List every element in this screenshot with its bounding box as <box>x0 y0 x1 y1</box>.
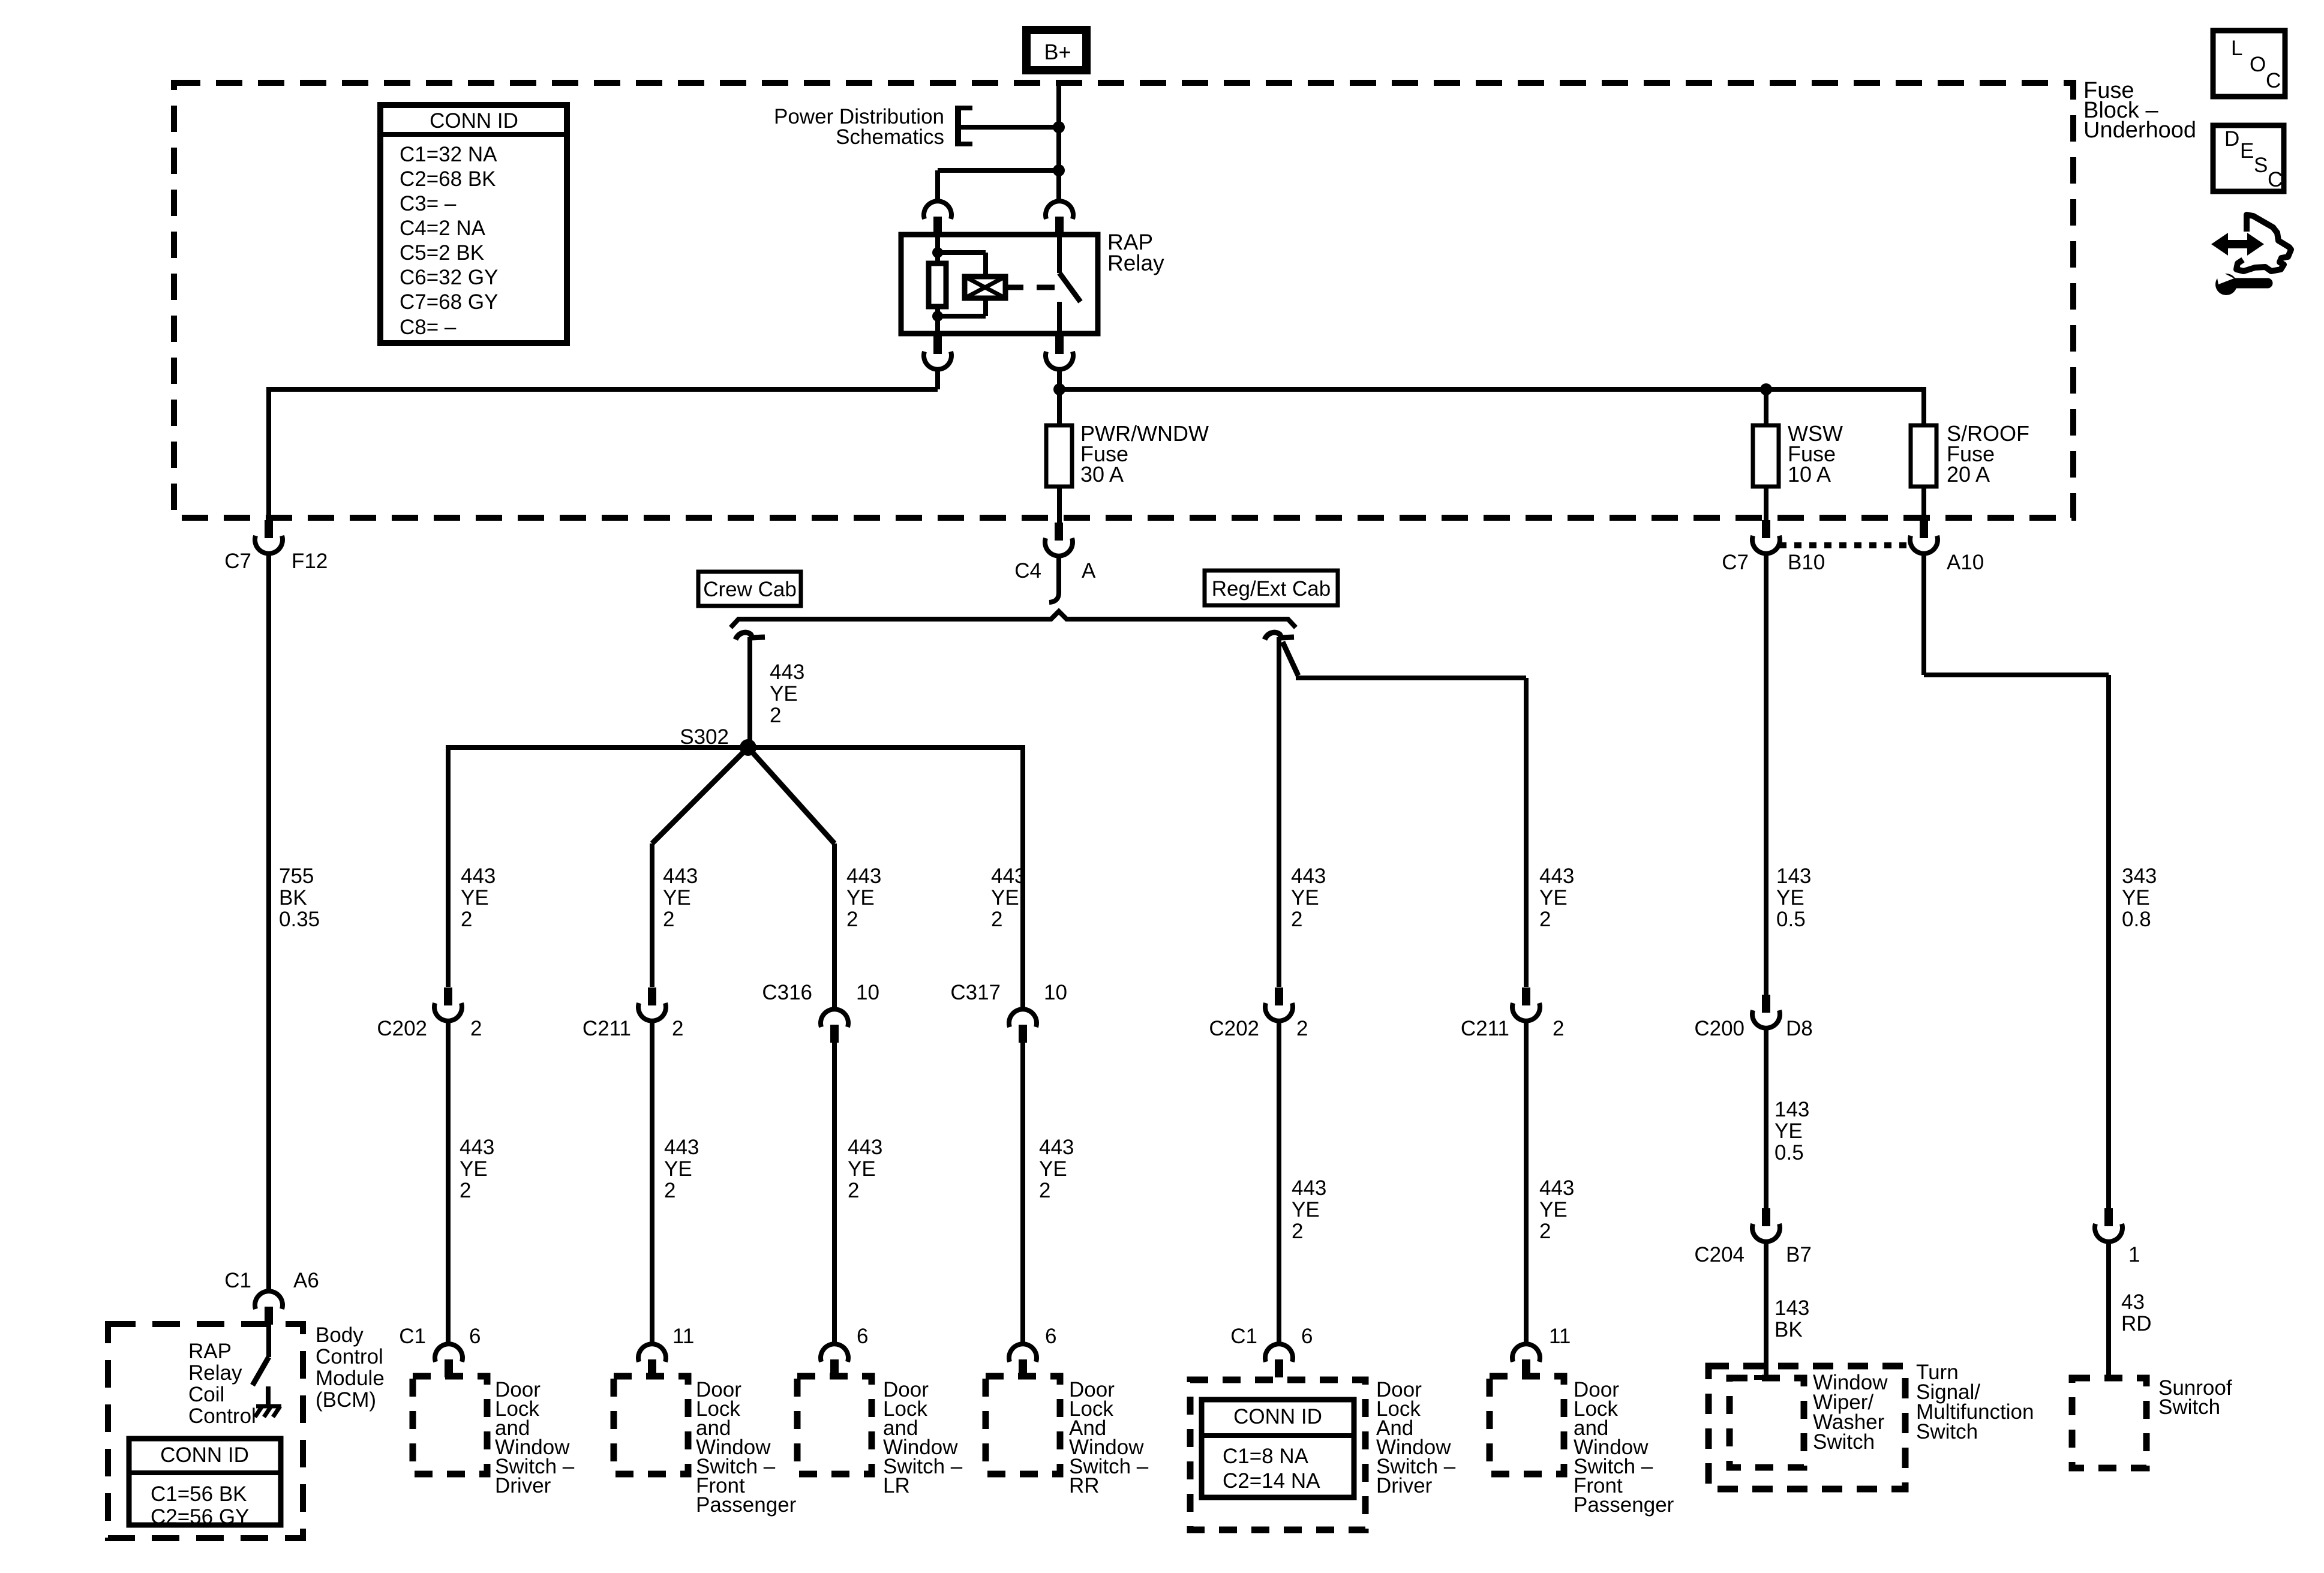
wire to power distribution schematics <box>955 106 1059 146</box>
svg-text:C: C <box>2268 168 2283 191</box>
svg-text:(BCM): (BCM) <box>316 1388 376 1412</box>
svg-text:YE: YE <box>1292 1198 1320 1221</box>
wire 755 BK 0.35 to BCM <box>266 553 271 1292</box>
wire 143 YE 0.5 C200 to C204 <box>1764 1028 1768 1208</box>
svg-text:C2=14 NA: C2=14 NA <box>1223 1469 1320 1493</box>
connector pin 11 (reg front passenger switch) <box>1512 1344 1540 1377</box>
label C1 A6 <box>224 1269 319 1292</box>
BCM dashed box <box>108 1324 303 1538</box>
wire relay internal coil top <box>938 235 986 278</box>
svg-text:D8: D8 <box>1786 1017 1813 1040</box>
svg-text:RD: RD <box>2121 1312 2152 1335</box>
svg-text:Reg/Ext Cab: Reg/Ext Cab <box>1212 577 1331 601</box>
svg-text:C1: C1 <box>1230 1325 1257 1348</box>
connector relay pin 2 (switch B+) <box>1046 201 1073 235</box>
svg-text:143: 143 <box>1774 1296 1809 1320</box>
wire 443 YE 2 reg C202 to driver switch <box>1277 1020 1281 1345</box>
wire PWR/WNDW fuse output <box>1057 487 1062 524</box>
svg-text:143: 143 <box>1774 1098 1809 1121</box>
svg-text:443: 443 <box>1292 1176 1326 1200</box>
wire relay coil branch <box>938 170 1059 202</box>
svg-text:YE: YE <box>461 886 489 909</box>
svg-text:B7: B7 <box>1786 1243 1812 1266</box>
wire relay internal coil bottom <box>938 298 986 334</box>
label Reg/Ext Cab <box>1205 571 1338 605</box>
svg-text:C3= –: C3= – <box>400 192 457 215</box>
wire 443 YE 2 C211 to front passenger switch <box>650 1020 654 1345</box>
svg-text:11: 11 <box>1549 1325 1571 1348</box>
sunroof switch box <box>2072 1378 2146 1468</box>
svg-text:6: 6 <box>1045 1325 1056 1348</box>
svg-text:YE: YE <box>1776 886 1804 909</box>
svg-text:C204: C204 <box>1694 1243 1744 1266</box>
svg-text:43: 43 <box>2121 1290 2145 1314</box>
label C7 B10 <box>1722 551 1825 574</box>
svg-text:443: 443 <box>770 661 804 684</box>
svg-text:C4: C4 <box>1014 559 1041 583</box>
svg-text:L: L <box>2231 37 2242 60</box>
svg-text:443: 443 <box>991 864 1026 888</box>
svg-text:YE: YE <box>1539 1198 1568 1221</box>
svg-text:0.5: 0.5 <box>1774 1141 1804 1164</box>
svg-text:CONN ID: CONN ID <box>1233 1405 1322 1428</box>
svg-text:Driver: Driver <box>1376 1474 1433 1497</box>
wire WSW fuse feed <box>1764 389 1768 427</box>
svg-text:YE: YE <box>664 1157 692 1181</box>
svg-text:2: 2 <box>461 908 472 931</box>
wire 343 YE 0.8 A10 to sunroof switch <box>1924 553 2109 1208</box>
svg-text:YE: YE <box>1039 1157 1067 1181</box>
svg-text:Switch: Switch <box>2158 1395 2220 1419</box>
connector C1 pin 6 (reg driver switch) <box>1265 1344 1293 1377</box>
svg-text:YE: YE <box>991 886 1019 909</box>
wire 443 YE 2 reg passenger feed <box>1283 642 1526 987</box>
wire 443 YE 2 C317 to RR switch <box>1020 1042 1025 1345</box>
wire relay switched bus <box>1059 368 1924 389</box>
svg-text:443: 443 <box>1539 864 1574 888</box>
connector pin 1 (sunroof switch) <box>2095 1208 2122 1242</box>
svg-text:2: 2 <box>1553 1017 1564 1040</box>
svg-text:YE: YE <box>1774 1119 1803 1143</box>
svg-text:Control: Control <box>316 1345 383 1368</box>
svg-text:A: A <box>1082 559 1096 583</box>
wire 443 YE 2 to C202 (driver) <box>446 745 451 987</box>
wire WSW fuse output <box>1764 487 1768 521</box>
svg-text:C200: C200 <box>1694 1017 1744 1040</box>
svg-text:CONN ID: CONN ID <box>160 1443 249 1467</box>
connector pin 6 (LR switch) <box>821 1344 848 1377</box>
label C7 F12 <box>224 550 328 573</box>
door lock and window switch front passenger box <box>614 1376 688 1474</box>
svg-text:O: O <box>2250 53 2266 76</box>
svg-text:Schematics: Schematics <box>836 125 944 149</box>
icon DESC box <box>2213 125 2284 191</box>
door lock and window switch reg driver box <box>1190 1380 1365 1530</box>
door lock and window switch reg front passenger box <box>1490 1376 1564 1474</box>
svg-text:2: 2 <box>846 908 858 931</box>
svg-text:LR: LR <box>883 1474 910 1497</box>
svg-text:YE: YE <box>770 682 798 706</box>
wire B+ vertical feed <box>1056 84 1061 202</box>
wire 443 YE 2 C202 to driver switch <box>446 1020 451 1345</box>
label C200 D8 <box>1694 1017 1812 1040</box>
svg-text:30 A: 30 A <box>1080 462 1124 487</box>
CONN ID table (BCM) <box>129 1439 281 1529</box>
svg-text:2: 2 <box>460 1179 471 1202</box>
svg-text:Relay: Relay <box>1107 251 1164 275</box>
label C202 2 <box>1209 1017 1308 1040</box>
svg-text:S: S <box>2254 154 2268 177</box>
wire relay linkage dashed <box>1005 285 1056 290</box>
label C211 2 <box>582 1017 684 1040</box>
svg-text:C1=32 NA: C1=32 NA <box>400 143 497 166</box>
wire 43 RD <box>2106 1241 2111 1379</box>
connector pin 11 (front passenger switch) <box>638 1344 666 1377</box>
svg-text:C1=56 BK: C1=56 BK <box>151 1482 247 1506</box>
window wiper washer switch inner box <box>1730 1378 1804 1467</box>
svg-text:0.35: 0.35 <box>279 908 320 931</box>
svg-text:2: 2 <box>770 704 781 727</box>
wire variant split bracket <box>731 611 1296 628</box>
svg-text:YE: YE <box>460 1157 488 1181</box>
node junction dot power distribution tap <box>1053 121 1065 133</box>
wire relay coil output bus to F12 <box>266 368 938 521</box>
door lock and window switch RR box <box>986 1376 1060 1474</box>
svg-text:C4=2 NA: C4=2 NA <box>400 217 486 240</box>
wire 443 YE 2 to C211 (front passenger) <box>650 843 654 987</box>
node junction dot switched bus left <box>1053 383 1065 395</box>
icon double arrow <box>2211 233 2264 256</box>
svg-text:YE: YE <box>848 1157 876 1181</box>
svg-text:11: 11 <box>672 1325 694 1348</box>
connector C4 pin A <box>1045 523 1073 556</box>
connector C317 pin 10 <box>1009 1009 1037 1043</box>
svg-text:BK: BK <box>279 886 307 909</box>
wire 443 YE 2 to C317 (RR) <box>1020 745 1025 1010</box>
connector C7 pin F12 <box>255 520 283 554</box>
svg-text:6: 6 <box>1301 1325 1313 1348</box>
node relay internal junction top <box>932 247 943 258</box>
svg-text:2: 2 <box>664 1179 675 1202</box>
ground chassis (BCM internal) <box>255 1386 281 1417</box>
label C316 10 <box>762 981 879 1004</box>
wire reg/ext branch splice hook <box>1265 632 1281 640</box>
wire crew cab branch splice hook <box>735 632 752 640</box>
relay U1 RAP Relay box <box>901 235 1098 334</box>
wire S/ROOF fuse output <box>1921 487 1926 521</box>
wire 443 YE 2 reg driver feed <box>1277 637 1281 987</box>
svg-text:C7: C7 <box>1722 551 1749 574</box>
connector relay pin 5 (switched out) <box>1046 336 1073 370</box>
svg-text:6: 6 <box>857 1325 868 1348</box>
svg-text:Passenger: Passenger <box>696 1493 797 1517</box>
connector C316 pin 10 <box>821 1009 848 1043</box>
svg-text:A10: A10 <box>1947 551 1984 574</box>
svg-text:2: 2 <box>1539 908 1551 931</box>
svg-text:10 A: 10 A <box>1788 462 1831 487</box>
label Power Distribution Schematics <box>774 105 944 149</box>
svg-text:443: 443 <box>664 1136 699 1159</box>
svg-text:443: 443 <box>460 1136 494 1159</box>
wire 443 YE 2 C316 to LR switch <box>832 1042 837 1345</box>
svg-text:2: 2 <box>1539 1220 1551 1243</box>
connector C211 pin 2 (crew) <box>638 987 666 1021</box>
svg-text:2: 2 <box>663 908 674 931</box>
label C4 A <box>1014 559 1096 583</box>
svg-text:443: 443 <box>1539 1176 1574 1200</box>
connector C204 pin B7 <box>1752 1208 1780 1242</box>
CONN ID table (fuse block) <box>380 105 567 343</box>
connector A10 (S/ROOF out) <box>1910 520 1938 554</box>
svg-text:C211: C211 <box>1461 1017 1509 1040</box>
svg-text:0.8: 0.8 <box>2122 908 2151 931</box>
coil relay winding <box>965 277 1005 298</box>
door lock and window switch driver box <box>413 1376 487 1474</box>
node relay internal junction bottom <box>932 311 943 322</box>
svg-text:Module: Module <box>316 1367 385 1390</box>
svg-text:343: 343 <box>2122 864 2157 888</box>
svg-text:Control: Control <box>188 1404 256 1428</box>
connector C202 pin 2 (crew) <box>434 987 462 1021</box>
svg-text:CONN ID: CONN ID <box>430 109 518 133</box>
svg-text:2: 2 <box>1296 1017 1308 1040</box>
svg-text:6: 6 <box>469 1325 481 1348</box>
svg-text:C202: C202 <box>1209 1017 1259 1040</box>
svg-text:Crew Cab: Crew Cab <box>703 578 797 601</box>
svg-text:Passenger: Passenger <box>1574 1493 1674 1517</box>
switch relay contact <box>1059 235 1080 334</box>
fuse block underhood dashed boundary <box>174 83 2073 518</box>
svg-text:1: 1 <box>2128 1243 2140 1266</box>
svg-text:YE: YE <box>1291 886 1319 909</box>
svg-text:443: 443 <box>846 864 881 888</box>
svg-text:2: 2 <box>1291 908 1302 931</box>
svg-text:A6: A6 <box>293 1269 319 1292</box>
wire PWR/WNDW fuse feed <box>1057 389 1062 427</box>
svg-text:C2=68 BK: C2=68 BK <box>400 167 496 191</box>
svg-text:C317: C317 <box>950 981 1001 1004</box>
wire 443 YE 2 reg C211 to front passenger switch <box>1524 1020 1529 1345</box>
svg-text:2: 2 <box>1292 1220 1303 1243</box>
svg-text:YE: YE <box>1539 886 1568 909</box>
svg-text:D: D <box>2224 127 2239 151</box>
svg-text:C8= –: C8= – <box>400 316 457 339</box>
svg-text:2: 2 <box>1039 1179 1050 1202</box>
connector C211 pin 2 (reg) <box>1512 987 1540 1021</box>
svg-text:443: 443 <box>461 864 496 888</box>
wire 443 YE 2 to C316 (LR) <box>832 843 837 1010</box>
turn signal multifunction switch outer box <box>1709 1366 1905 1489</box>
svg-text:C7=68 GY: C7=68 GY <box>400 290 498 314</box>
svg-text:C202: C202 <box>377 1017 427 1040</box>
svg-text:755: 755 <box>279 864 314 888</box>
connector C202 pin 2 (reg) <box>1265 987 1293 1021</box>
icon wrench <box>2215 269 2268 295</box>
svg-text:C1: C1 <box>399 1325 426 1348</box>
svg-text:BK: BK <box>1774 1318 1803 1341</box>
svg-text:C7: C7 <box>224 550 251 573</box>
label C1 6 <box>399 1325 481 1348</box>
svg-text:10: 10 <box>1044 981 1067 1004</box>
svg-text:10: 10 <box>856 981 879 1004</box>
connector C1 pin 6 (driver switch) <box>435 1344 463 1377</box>
node B+ battery feed <box>1026 30 1086 70</box>
svg-text:YE: YE <box>663 886 691 909</box>
wire C4 output with end hook <box>1049 555 1059 602</box>
splice S302 junction <box>448 739 1023 843</box>
switch RAP relay coil control driver <box>253 1325 269 1385</box>
svg-text:B+: B+ <box>1044 40 1071 64</box>
connector C200 pin D8 <box>1752 995 1780 1028</box>
label C1 6 <box>1230 1325 1313 1348</box>
svg-text:443: 443 <box>1291 864 1326 888</box>
label C211 2 <box>1461 1017 1565 1040</box>
svg-text:2: 2 <box>470 1017 482 1040</box>
svg-text:Switch: Switch <box>1916 1420 1978 1443</box>
fuse F3 S/ROOF 20A <box>1911 425 1936 487</box>
label C202 2 <box>377 1017 482 1040</box>
svg-text:143: 143 <box>1776 864 1811 888</box>
connector C1 pin A6 (BCM) <box>255 1291 283 1325</box>
svg-text:Relay: Relay <box>188 1361 242 1385</box>
label Crew Cab <box>698 572 801 606</box>
wire dotted connector tie B10-A10 <box>1779 542 1911 548</box>
wire S/ROOF fuse feed <box>1921 387 1926 427</box>
svg-text:YE: YE <box>846 886 875 909</box>
label C204 B7 <box>1694 1243 1811 1266</box>
svg-text:Driver: Driver <box>495 1474 551 1497</box>
wire 143 YE 0.5 B10 to C200 <box>1764 553 1768 995</box>
wire 143 BK to wiper switch <box>1754 1241 1778 1377</box>
svg-text:C316: C316 <box>762 981 812 1004</box>
svg-text:2: 2 <box>848 1179 859 1202</box>
svg-text:2: 2 <box>672 1017 683 1040</box>
svg-text:443: 443 <box>1039 1136 1074 1159</box>
svg-text:RR: RR <box>1069 1474 1100 1497</box>
svg-text:C211: C211 <box>582 1017 631 1040</box>
connector relay pin 1 (coil B+) <box>924 201 951 235</box>
svg-text:Underhood: Underhood <box>2083 118 2196 143</box>
wire 443 YE 2 crew feed <box>747 637 752 748</box>
node junction dot WSW branch <box>1760 383 1772 395</box>
CONN ID table (reg driver switch) <box>1202 1400 1354 1497</box>
fuse F1 PWR/WNDW 30A <box>1046 425 1072 487</box>
connector pin 6 (RR switch) <box>1009 1344 1037 1377</box>
svg-text:0.5: 0.5 <box>1776 908 1806 931</box>
svg-text:443: 443 <box>663 864 698 888</box>
svg-text:C6=32 GY: C6=32 GY <box>400 266 498 289</box>
icon LOC box <box>2213 31 2285 97</box>
svg-text:C1=8 NA: C1=8 NA <box>1223 1445 1309 1468</box>
svg-text:Body: Body <box>316 1323 364 1347</box>
svg-text:C: C <box>2266 69 2281 92</box>
svg-text:C2=56 GY: C2=56 GY <box>151 1505 249 1529</box>
svg-text:C5=2 BK: C5=2 BK <box>400 241 484 265</box>
svg-text:20 A: 20 A <box>1947 462 1990 487</box>
svg-text:YE: YE <box>2122 886 2150 909</box>
svg-text:Switch: Switch <box>1813 1430 1875 1454</box>
svg-text:2: 2 <box>991 908 1002 931</box>
svg-text:Coil: Coil <box>188 1383 224 1406</box>
label C317 10 <box>950 981 1067 1004</box>
connector C7 pin B10 <box>1752 520 1780 554</box>
svg-text:RAP: RAP <box>188 1340 232 1363</box>
icon vehicle outline <box>2236 215 2291 271</box>
resistor relay damping <box>929 263 946 307</box>
svg-text:F12: F12 <box>292 550 328 573</box>
svg-text:E: E <box>2240 139 2254 163</box>
node junction dot relay coil tap <box>1053 164 1065 176</box>
fuse F2 WSW 10A <box>1753 425 1779 487</box>
svg-text:443: 443 <box>848 1136 882 1159</box>
svg-text:C1: C1 <box>224 1269 251 1292</box>
door lock and window switch LR box <box>797 1376 872 1474</box>
svg-text:B10: B10 <box>1788 551 1825 574</box>
connector relay pin 3 (coil out) <box>924 336 951 370</box>
